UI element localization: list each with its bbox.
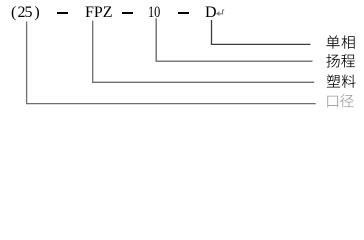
pilcrow return mark [217,10,224,16]
model code text 10 [148,5,160,21]
label-suliao (plastic) [327,74,356,87]
leader line from FPZ to su-liao [93,21,315,83]
model code text D [205,5,217,21]
dash 1 [57,12,68,13]
dash 2 [122,12,133,13]
label-yangcheng (head/lift) [326,54,355,67]
label-koujing (diameter) [327,94,353,107]
leader line from 10 to yang-cheng [156,18,312,61]
model code text (25) [11,5,41,21]
model code text FPZ [85,5,113,21]
leader line from (25) to kou-jing [27,22,316,104]
leader line from D to dan-xiang [212,20,311,44]
dash 3 [178,12,189,13]
label-danxiang (single-phase) [326,35,354,48]
